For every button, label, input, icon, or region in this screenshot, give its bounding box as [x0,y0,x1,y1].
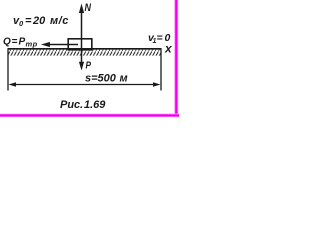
svg-text:P: P [86,61,92,72]
magenta crop line vertical [174,0,178,117]
weight force arrow P [79,45,84,71]
ground surface line [8,48,162,50]
left extension line [7,49,9,91]
normal force arrow N [79,4,84,46]
svg-text:s=500м: s=500м [85,73,128,85]
body (block on surface) [68,39,92,50]
magenta crop line horizontal [0,114,179,118]
svg-text:N: N [85,2,92,14]
friction force arrow Q [41,42,78,47]
ground hatching [8,50,161,56]
dimension line s [9,82,161,86]
right extension line [160,49,162,91]
svg-text:Рис.1.69: Рис.1.69 [60,99,106,111]
svg-text:x: x [164,42,173,56]
